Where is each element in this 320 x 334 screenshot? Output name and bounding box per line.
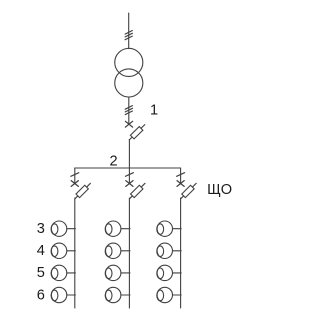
luminaire row 4 group feeder middle [105, 243, 121, 258]
wire: branch row 5 group feeder middle [121, 272, 130, 274]
wire: riser group feeder middle [128, 198, 130, 308]
wire: branch row 4 group feeder middle [121, 250, 130, 252]
wire: branch row 4 group feeder left [67, 250, 76, 252]
breaker contact of switch 1 [125, 121, 132, 127]
luminaire row 6 group feeder left [51, 287, 67, 302]
wire: group feeder left drop from bus [74, 168, 76, 184]
wire: switch 1 to bus [128, 139, 130, 168]
wire: branch row 4 group feeder right [173, 250, 182, 252]
fuse-switch blade (group feeder right) [181, 183, 196, 198]
luminaire row 5 group feeder middle [105, 265, 121, 280]
breaker contact (group feeder left) [71, 181, 78, 187]
fuse-switch blade (group feeder middle) [130, 183, 145, 198]
three-phase mark (LV side) [125, 106, 132, 115]
luminaire row 5 group feeder left [51, 265, 67, 280]
wire: branch row 3 group feeder right [173, 228, 182, 230]
phase tick (group feeder middle) [125, 173, 133, 177]
wire: group feeder right drop from bus [180, 168, 182, 184]
fuse-switch blade (group feeder left) [75, 183, 90, 198]
wire: riser group feeder left [74, 198, 76, 308]
wire: transformer secondary drop [128, 97, 130, 124]
svg-text:3: 3 [37, 221, 45, 237]
three-phase mark (HV side) [125, 31, 132, 40]
luminaire row 3 group feeder right [157, 221, 173, 236]
luminaire row 4 group feeder left [51, 243, 67, 258]
bus 2 [75, 167, 181, 169]
svg-text:6: 6 [37, 287, 45, 303]
svg-text:ЩО: ЩО [207, 182, 232, 198]
wire: branch row 6 group feeder left [67, 294, 76, 296]
wire: riser group feeder right [180, 198, 182, 308]
svg-text:5: 5 [37, 265, 45, 281]
wire: branch row 6 group feeder middle [121, 294, 130, 296]
luminaire row 3 group feeder left [51, 221, 67, 236]
wire: HV feeder drop [128, 13, 130, 49]
svg-text:2: 2 [110, 154, 118, 170]
luminaire row 6 group feeder right [157, 287, 173, 302]
fuse-switch blade Q1 [129, 125, 145, 140]
wire: group feeder middle drop from bus [128, 168, 130, 184]
phase tick (group feeder left) [71, 173, 79, 177]
wire: branch row 3 group feeder middle [121, 228, 130, 230]
wire: branch row 6 group feeder right [173, 294, 182, 296]
luminaire row 6 group feeder middle [105, 287, 121, 302]
luminaire row 3 group feeder middle [105, 221, 121, 236]
breaker contact (group feeder right) [177, 181, 184, 187]
transformer T1 [115, 48, 143, 97]
wire: branch row 3 group feeder left [67, 228, 76, 230]
luminaire row 4 group feeder right [157, 243, 173, 258]
svg-text:4: 4 [37, 243, 45, 259]
wire: branch row 5 group feeder left [67, 272, 76, 274]
wire: branch row 5 group feeder right [173, 272, 182, 274]
svg-text:1: 1 [150, 103, 158, 119]
breaker contact (group feeder middle) [126, 181, 133, 187]
luminaire row 5 group feeder right [157, 265, 173, 280]
phase tick (group feeder right) [177, 173, 185, 177]
